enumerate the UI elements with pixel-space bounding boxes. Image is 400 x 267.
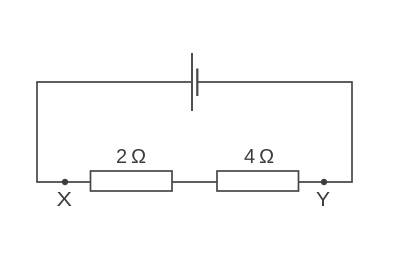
wire top right segment — [198, 81, 353, 83]
wire bottom right segment — [299, 181, 353, 183]
resistor R2 (4 ohm) body — [217, 171, 299, 191]
node Y junction dot — [321, 179, 327, 185]
wire left vertical — [36, 82, 38, 182]
wire bottom left segment — [36, 181, 90, 183]
svg-text:X: X — [57, 188, 73, 211]
battery B1 long plate — [191, 53, 193, 111]
node X junction dot — [62, 179, 68, 185]
battery B1 short plate — [196, 69, 198, 97]
wire between resistors — [172, 181, 217, 183]
wire top left segment — [36, 81, 191, 83]
svg-text:2 Ω: 2 Ω — [116, 146, 146, 168]
svg-text:4 Ω: 4 Ω — [244, 146, 274, 168]
wire right vertical — [351, 81, 353, 182]
svg-text:Y: Y — [316, 188, 330, 211]
resistor R1 (2 ohm) body — [91, 171, 173, 191]
